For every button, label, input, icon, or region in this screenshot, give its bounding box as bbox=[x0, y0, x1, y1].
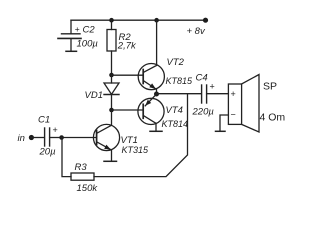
transistor VT1 bbox=[62, 124, 120, 160]
ground at speaker return bbox=[216, 130, 226, 132]
svg-text:220µ: 220µ bbox=[192, 107, 215, 118]
label R2 value bbox=[117, 32, 137, 51]
svg-text:KT814: KT814 bbox=[162, 119, 189, 129]
svg-text:KT315: KT315 bbox=[122, 145, 150, 155]
node C: C1 / VT1 base / R3 bbox=[59, 135, 64, 140]
ground below C2 bbox=[66, 50, 77, 52]
wire: R3 to feedback riser to emitter node bbox=[94, 94, 188, 177]
svg-text:20µ: 20µ bbox=[39, 147, 57, 158]
ground below VT4 collector bbox=[150, 130, 162, 132]
svg-text:VD1: VD1 bbox=[85, 90, 103, 101]
svg-text:150k: 150k bbox=[77, 183, 99, 194]
svg-text:VT4: VT4 bbox=[166, 105, 183, 116]
wire: emitter node to C4 bbox=[157, 93, 202, 95]
svg-text:−: − bbox=[231, 110, 236, 120]
speaker SP bbox=[228, 75, 259, 133]
svg-text:C4: C4 bbox=[196, 73, 208, 84]
wire: C1 to node C bbox=[50, 137, 62, 139]
svg-text:in: in bbox=[18, 133, 25, 144]
label VD1 bbox=[85, 90, 103, 101]
label +8v bbox=[187, 26, 206, 37]
svg-text:C2: C2 bbox=[83, 25, 96, 36]
terminal: input "in" bbox=[29, 135, 34, 140]
svg-text:4 Om: 4 Om bbox=[260, 112, 286, 124]
label VT1 KT315 bbox=[121, 135, 150, 155]
svg-text:R3: R3 bbox=[75, 162, 88, 173]
terminal: +8v supply bbox=[203, 18, 208, 23]
node B: VD1 cathode / VT4 base / VT1 collector bbox=[109, 108, 114, 113]
svg-text:2,7k: 2,7k bbox=[117, 41, 137, 52]
svg-text:+: + bbox=[231, 89, 236, 99]
wire: C4 to speaker bbox=[207, 93, 229, 95]
svg-text:KT815: KT815 bbox=[166, 76, 194, 86]
svg-text:VT2: VT2 bbox=[167, 57, 185, 68]
label C4 value bbox=[192, 73, 215, 118]
wire: +8v supply rail bbox=[71, 19, 206, 21]
node: rail junction at VT2 collector bbox=[154, 18, 159, 23]
svg-text:+: + bbox=[210, 82, 215, 92]
label speaker polarity bbox=[231, 89, 236, 120]
capacitor C4 bbox=[202, 85, 207, 103]
node D: VT2 emitter / VT4 emitter / output bbox=[154, 92, 159, 97]
node: rail junction at R2 top bbox=[109, 18, 114, 23]
wire: node A to VT2 base bbox=[112, 74, 143, 76]
transistor VT2 bbox=[138, 64, 164, 95]
label SP 4 Om bbox=[260, 81, 286, 124]
node A: R2 / VD1 anode / VT2 base bbox=[109, 73, 114, 78]
wire: input terminal to C1 bbox=[31, 137, 44, 139]
label VT2 KT815 bbox=[166, 57, 194, 86]
svg-text:SP: SP bbox=[263, 81, 277, 93]
svg-text:+: + bbox=[53, 125, 58, 135]
svg-text:+: + bbox=[75, 24, 80, 34]
wire: node B to VT4 base bbox=[112, 109, 143, 111]
wire: VT2 collector to rail bbox=[156, 20, 158, 65]
label R3 value bbox=[75, 162, 99, 194]
svg-text:C1: C1 bbox=[38, 114, 50, 125]
resistor R2 bbox=[107, 20, 116, 73]
label in bbox=[18, 133, 25, 144]
resistor R3 bbox=[71, 173, 94, 180]
transistor VT4 bbox=[138, 94, 164, 131]
diode VD1 bbox=[104, 75, 119, 108]
svg-text:+ 8v: + 8v bbox=[187, 26, 206, 37]
wire: node C down to R3 bbox=[62, 138, 71, 177]
label C1 value bbox=[38, 114, 58, 157]
wire: speaker minus to ground bbox=[220, 115, 228, 131]
label C2 value bbox=[75, 24, 99, 50]
wire: node B down to VT1 collector bbox=[111, 110, 113, 125]
capacitor C2 bbox=[58, 20, 81, 51]
ground below VT1 emitter bbox=[104, 160, 117, 162]
capacitor C1 bbox=[45, 128, 50, 146]
svg-text:100µ: 100µ bbox=[77, 38, 99, 49]
label VT4 KT814 bbox=[162, 105, 189, 129]
